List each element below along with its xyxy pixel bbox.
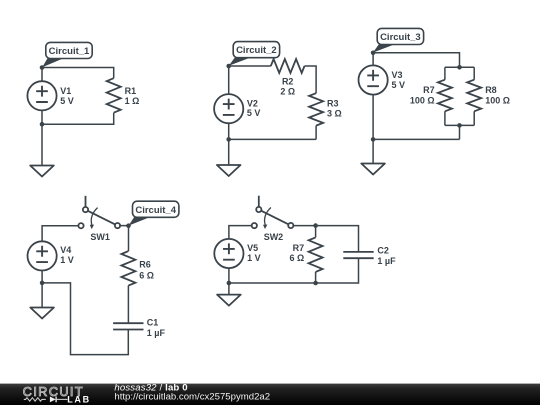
svg-text:SW1: SW1: [90, 232, 110, 242]
svg-text:C1: C1: [147, 318, 159, 328]
svg-text:Circuit_3: Circuit_3: [380, 32, 421, 43]
svg-text:5 V: 5 V: [392, 80, 406, 90]
svg-text:V4: V4: [60, 245, 71, 255]
svg-text:1 µF: 1 µF: [377, 256, 396, 266]
svg-text:1 V: 1 V: [60, 255, 74, 265]
svg-text:1 V: 1 V: [247, 253, 261, 263]
svg-text:http://circuitlab.com/cx2575py: http://circuitlab.com/cx2575pymd2a2: [114, 392, 270, 403]
svg-text:100 Ω: 100 Ω: [485, 96, 510, 106]
svg-text:R8: R8: [485, 85, 497, 95]
svg-text:R1: R1: [125, 86, 137, 96]
svg-text:R7: R7: [423, 85, 435, 95]
svg-text:Circuit_2: Circuit_2: [236, 45, 277, 56]
svg-text:6 Ω: 6 Ω: [139, 270, 154, 280]
svg-text:Circuit_4: Circuit_4: [135, 205, 176, 216]
svg-text:1 µF: 1 µF: [147, 328, 166, 338]
svg-text:Circuit_1: Circuit_1: [49, 46, 90, 57]
svg-text:V2: V2: [247, 98, 258, 108]
svg-text:100 Ω: 100 Ω: [410, 96, 435, 106]
svg-text:R6: R6: [139, 259, 151, 269]
svg-text:1 Ω: 1 Ω: [125, 96, 140, 106]
svg-text:2 Ω: 2 Ω: [280, 86, 295, 96]
svg-text:V3: V3: [392, 70, 403, 80]
svg-text:R7: R7: [293, 243, 305, 253]
svg-text:V1: V1: [60, 86, 71, 96]
svg-text:C2: C2: [377, 245, 389, 255]
svg-text:R3: R3: [327, 99, 339, 109]
svg-text:3 Ω: 3 Ω: [327, 109, 342, 119]
svg-text:R2: R2: [282, 76, 294, 86]
svg-text:SW2: SW2: [264, 232, 284, 242]
svg-text:V5: V5: [247, 243, 258, 253]
svg-text:6 Ω: 6 Ω: [289, 253, 304, 263]
svg-text:LAB: LAB: [67, 395, 91, 405]
svg-text:5 V: 5 V: [60, 96, 74, 106]
svg-text:5 V: 5 V: [247, 108, 261, 118]
